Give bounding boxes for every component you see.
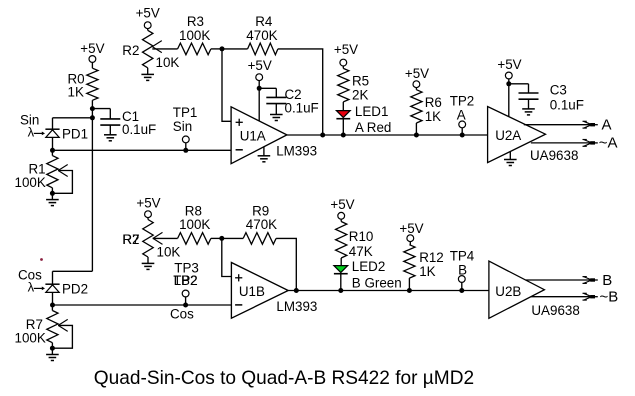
- ground C1: [104, 135, 117, 141]
- svg-text:TP2: TP2: [450, 93, 475, 108]
- svg-text:Sin: Sin: [173, 119, 192, 134]
- wire R10 to LED2: [340, 258, 342, 266]
- wire R12 bottom: [408, 278, 410, 290]
- ground C2: [270, 115, 283, 121]
- wire R1 top: [51, 150, 53, 155]
- testpoint TP3: [170, 261, 199, 322]
- wire R7 bottom: [51, 343, 53, 355]
- ground C3: [522, 109, 535, 115]
- wire to PD1: [53, 118, 93, 129]
- node Cos junction: [50, 303, 55, 308]
- photodiode PD1: [45, 127, 88, 142]
- power +5V (R5 supply): [334, 42, 358, 66]
- ground R2: [141, 74, 154, 80]
- wire to U1B plus input: [222, 238, 232, 276]
- svg-text:2K: 2K: [352, 87, 368, 102]
- svg-text:R7: R7: [123, 232, 140, 247]
- svg-text:A: A: [457, 107, 466, 122]
- wire +5V to R12: [409, 241, 411, 244]
- wire +5V to U2A: [508, 79, 510, 117]
- LED2 green: [334, 259, 402, 290]
- photodiode PD2: [45, 282, 88, 297]
- svg-text:470K: 470K: [246, 217, 277, 232]
- wire PD1 anode: [52, 137, 54, 150]
- svg-text:+5V: +5V: [330, 197, 354, 212]
- svg-text:A Red: A Red: [355, 120, 391, 135]
- svg-text:LB2: LB2: [174, 273, 198, 288]
- line driver U2A UA9638: [488, 107, 579, 163]
- svg-text:Cos: Cos: [170, 307, 194, 322]
- svg-text:100K: 100K: [15, 175, 46, 190]
- wire Cos rail: [53, 304, 232, 306]
- label Cos: [18, 267, 42, 282]
- svg-text:R4: R4: [255, 14, 273, 29]
- power +5V (R2 supply): [136, 6, 160, 29]
- power +5V (U1A supply): [248, 58, 272, 81]
- ground U1A: [258, 147, 271, 162]
- svg-text:+5V: +5V: [136, 196, 160, 211]
- svg-text:TP1: TP1: [173, 105, 198, 120]
- svg-text:470K: 470K: [246, 28, 277, 43]
- svg-text:+5V: +5V: [136, 6, 160, 21]
- wire LED2 cathode: [340, 274, 342, 291]
- node R0-C1 junction: [90, 106, 95, 111]
- node R3-R4 junction: [220, 46, 225, 51]
- wire +5V circle to R0: [91, 62, 93, 68]
- wire node to R4: [222, 48, 248, 50]
- svg-text:B: B: [602, 272, 612, 289]
- svg-text:10K: 10K: [156, 55, 180, 70]
- svg-text:LM393: LM393: [276, 299, 317, 314]
- wire R7 wiper loop: [52, 325, 72, 348]
- wire R9 feedback: [276, 238, 296, 290]
- svg-text:λ: λ: [28, 125, 35, 140]
- svg-text:LED1: LED1: [355, 104, 389, 119]
- wire LED1 cathode: [342, 119, 344, 135]
- wire to C3: [509, 84, 529, 93]
- wire +5V to R5: [342, 66, 344, 69]
- svg-text:A: A: [602, 117, 612, 134]
- node feedback B: [294, 288, 299, 293]
- wire to C2: [259, 88, 276, 97]
- node PD1 top junction: [90, 115, 95, 120]
- svg-text:~A: ~A: [599, 135, 618, 152]
- svg-text:100K: 100K: [179, 217, 210, 232]
- svg-text:R6: R6: [425, 95, 442, 110]
- ground R1: [46, 200, 59, 206]
- svg-text:PD1: PD1: [62, 127, 88, 142]
- wire +5V to pot: [147, 217, 149, 219]
- line driver U2B UA9638: [489, 261, 580, 318]
- svg-text:47K: 47K: [349, 244, 373, 259]
- svg-text:B Green: B Green: [352, 275, 402, 290]
- svg-text:100K: 100K: [179, 28, 210, 43]
- light arrow PD1: [28, 125, 45, 140]
- resistor R6 1K: [411, 90, 442, 124]
- node R1 bottom: [50, 191, 55, 196]
- wire to C1: [92, 109, 110, 119]
- svg-text:λ: λ: [28, 280, 35, 295]
- svg-text:TP4: TP4: [450, 248, 475, 263]
- power +5V (U2A supply): [497, 57, 521, 79]
- wire R2 bottom: [147, 68, 149, 75]
- power +5V (bottom pot supply): [136, 196, 160, 218]
- svg-text:1K: 1K: [425, 109, 441, 124]
- svg-text:C3: C3: [550, 83, 567, 98]
- svg-text:Quad-Sin-Cos to Quad-A-B RS422: Quad-Sin-Cos to Quad-A-B RS422 for µMD2: [94, 368, 474, 389]
- wire R2 wiper: [152, 48, 177, 50]
- ground R7: [46, 355, 59, 361]
- wire bias column: [91, 100, 93, 271]
- node C2 tap: [257, 86, 262, 91]
- wire R5 to LED1: [342, 102, 344, 111]
- svg-text:0.1uF: 0.1uF: [550, 98, 584, 113]
- svg-text:0.1uF: 0.1uF: [285, 100, 319, 115]
- wire R4 feedback: [278, 49, 323, 135]
- output B: [526, 272, 613, 289]
- svg-text:+5V: +5V: [399, 221, 423, 236]
- resistor R3 100K: [178, 14, 211, 55]
- node R7 bottom: [50, 346, 55, 351]
- output A: [524, 117, 612, 134]
- svg-text:+5V: +5V: [334, 42, 358, 57]
- power +5V (R6 supply): [405, 66, 429, 88]
- capacitor C3 0.1uF: [519, 83, 584, 113]
- wire node to R9: [222, 237, 243, 239]
- svg-text:R5: R5: [352, 73, 369, 88]
- testpoint TP1: [173, 105, 198, 153]
- svg-text:UA9638: UA9638: [531, 303, 579, 318]
- svg-text:1K: 1K: [68, 85, 84, 100]
- svg-text:R3: R3: [187, 14, 204, 29]
- testpoint TP4: [450, 248, 475, 293]
- potentiometer 10K (bottom): [122, 220, 180, 260]
- wire bias to PD2: [53, 271, 93, 284]
- svg-text:0.1uF: 0.1uF: [122, 122, 156, 137]
- svg-text:U1A: U1A: [240, 129, 266, 144]
- svg-text:10K: 10K: [157, 244, 181, 259]
- svg-text:+5V: +5V: [405, 66, 429, 81]
- potentiometer R2 10K: [122, 30, 179, 70]
- LED1 red: [336, 104, 391, 135]
- wire A comparator rail: [287, 134, 497, 136]
- stray mark: [40, 258, 43, 261]
- resistor R10 47K: [336, 222, 374, 259]
- svg-text:PD2: PD2: [62, 282, 88, 297]
- wire +5V to U1A: [258, 80, 260, 121]
- node Sin junction: [50, 148, 55, 153]
- wire PD2 anode: [52, 292, 54, 305]
- ground bottom pot: [142, 263, 155, 269]
- resistor R5 2K: [338, 68, 369, 102]
- wire +5V to R10: [340, 219, 342, 222]
- wire pot wiper: [153, 237, 178, 239]
- node LED1 junction: [341, 133, 346, 138]
- power +5V (R12 supply): [399, 221, 423, 242]
- light arrow PD2: [28, 280, 45, 295]
- node feedback A: [320, 133, 325, 138]
- potentiometer R1 100K: [15, 156, 68, 190]
- svg-text:R8: R8: [185, 203, 202, 218]
- node R8-R9 junction: [219, 236, 224, 241]
- node R6 junction: [414, 133, 419, 138]
- output ~B: [531, 289, 618, 306]
- svg-text:U1B: U1B: [239, 284, 265, 299]
- power +5V (R0 supply): [80, 41, 104, 62]
- node R12 junction: [407, 288, 412, 293]
- wire R6 bottom: [415, 123, 417, 135]
- svg-text:UA9638: UA9638: [530, 148, 578, 163]
- wire pot bottom: [147, 257, 149, 263]
- svg-text:~B: ~B: [600, 289, 619, 306]
- svg-text:+5V: +5V: [248, 58, 272, 73]
- svg-text:+5V: +5V: [80, 41, 104, 56]
- wire to U1A plus input: [222, 49, 231, 121]
- resistor R4 470K: [246, 14, 278, 55]
- wire R1 wiper loop: [52, 171, 72, 194]
- capacitor C1 0.1uF: [100, 109, 156, 137]
- svg-text:R10: R10: [349, 229, 374, 244]
- wire Sin rail: [53, 149, 232, 151]
- title text: [94, 368, 474, 389]
- wire R8 right: [211, 237, 222, 239]
- capacitor C2 0.1uF: [266, 87, 318, 115]
- svg-text:+5V: +5V: [497, 57, 521, 72]
- potentiometer R7 100K: [15, 311, 68, 346]
- svg-text:U2B: U2B: [495, 284, 521, 299]
- svg-text:LED2: LED2: [352, 259, 386, 274]
- svg-text:100K: 100K: [15, 331, 46, 346]
- resistor R9 470K: [243, 203, 277, 244]
- wire R7 top: [51, 305, 53, 311]
- wire R3 right: [211, 48, 222, 50]
- wire R1 bottom: [51, 188, 53, 200]
- power +5V (R10 supply): [330, 197, 354, 219]
- wire +5V to R6: [415, 87, 417, 89]
- svg-text:B: B: [458, 262, 467, 277]
- svg-text:R12: R12: [419, 250, 444, 265]
- svg-text:U2A: U2A: [495, 128, 521, 143]
- output ~A: [531, 135, 618, 152]
- wire +5V to R2: [147, 28, 149, 30]
- resistor R12 1K: [404, 245, 444, 279]
- resistor R0 1K: [68, 68, 99, 100]
- ground U2A: [504, 152, 517, 166]
- op-amp U1B LM393: [231, 263, 317, 319]
- testpoint TP2: [450, 93, 475, 137]
- node LED2 junction: [338, 288, 343, 293]
- wire B comparator rail: [288, 290, 497, 292]
- svg-text:1K: 1K: [419, 264, 435, 279]
- svg-text:R2: R2: [122, 43, 139, 58]
- node C3 tap: [506, 81, 511, 86]
- label Sin: [20, 112, 39, 127]
- resistor R8 100K: [178, 203, 211, 244]
- svg-text:R9: R9: [252, 203, 269, 218]
- op-amp U1A LM393: [231, 107, 317, 164]
- svg-text:LM393: LM393: [276, 144, 317, 159]
